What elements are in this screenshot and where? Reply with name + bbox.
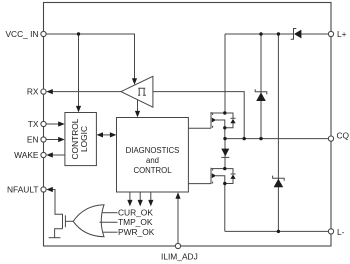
svg-text:EN: EN <box>27 134 39 144</box>
svg-text:CUR_OK: CUR_OK <box>118 207 153 217</box>
svg-text:CONTROL: CONTROL <box>133 166 172 175</box>
svg-text:WAKE: WAKE <box>14 150 39 160</box>
svg-text:ILIM_ADJ: ILIM_ADJ <box>161 252 198 262</box>
svg-text:L-: L- <box>337 227 345 237</box>
svg-text:CQ: CQ <box>337 130 350 140</box>
svg-text:TX: TX <box>28 119 39 129</box>
svg-text:VCC_ IN: VCC_ IN <box>5 29 38 39</box>
svg-text:TMP_OK: TMP_OK <box>118 217 153 227</box>
svg-text:DIAGNOSTICS: DIAGNOSTICS <box>126 146 180 155</box>
svg-text:NFAULT: NFAULT <box>7 184 39 194</box>
svg-text:L+: L+ <box>337 29 347 39</box>
svg-text:RX: RX <box>27 86 39 96</box>
svg-text:LOGIC: LOGIC <box>79 126 89 152</box>
svg-text:and: and <box>146 156 159 165</box>
svg-text:PWR_OK: PWR_OK <box>118 227 155 237</box>
